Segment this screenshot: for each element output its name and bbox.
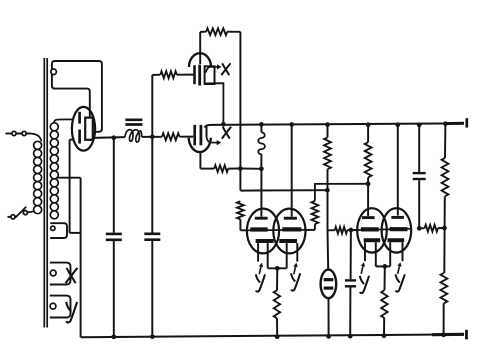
bias cell plates — [324, 278, 334, 281]
filament winding Y — [50, 296, 71, 318]
node V4 filament center — [382, 264, 387, 269]
resistor R9 — [312, 201, 319, 224]
wire R7 branch top — [327, 125, 329, 138]
wire R11 bottom — [276, 318, 278, 337]
resistor R1 grid — [160, 71, 177, 78]
transformer T1 secondary coil — [50, 123, 58, 131]
wire grid4 branch — [397, 125, 399, 216]
node B+ R13 — [443, 121, 448, 126]
node coil junction — [259, 166, 264, 171]
wire line2 coupling — [240, 189, 327, 191]
transformer T1 core — [43, 58, 45, 328]
tube V4 grid bar right — [391, 216, 404, 219]
resistor R10 grid left — [237, 201, 244, 219]
wire C1 branch — [113, 138, 115, 233]
node rail-R14 — [441, 332, 446, 337]
tube V4 cathode bar right — [388, 238, 405, 242]
wire V4 bias lead — [384, 266, 386, 290]
wire bus-240 — [239, 32, 241, 169]
wire V2b plate lead — [206, 125, 208, 137]
wire V2a top lead — [199, 32, 201, 64]
tube V4 cathode bar left — [364, 238, 381, 242]
tube V3 envelope left — [247, 209, 279, 254]
node C4 junction — [349, 228, 354, 233]
node cathode-bus — [238, 166, 243, 171]
wire C3 branch — [418, 125, 420, 172]
wire R9 bottom — [314, 224, 316, 230]
wire bias cell bottom — [328, 298, 330, 336]
node B+ R8 — [366, 122, 371, 127]
arrow Y4 — [398, 266, 400, 274]
wire coil branch top — [260, 124, 262, 132]
tube V3 grid bar right — [284, 217, 297, 220]
wire R13 branch — [444, 124, 446, 158]
label X1 — [222, 63, 229, 75]
arrow Y2 — [294, 267, 296, 275]
resistor R8 — [365, 142, 372, 177]
resistor R13 — [442, 158, 449, 196]
bias cell BC1 — [321, 270, 337, 299]
terminal ring input A2 — [22, 131, 26, 135]
tube V3 cathode bar left — [256, 239, 274, 243]
capacitor C1 — [106, 233, 122, 236]
node rail-BC1 — [326, 334, 331, 339]
tube V3 grid bar left — [255, 217, 268, 220]
filament winding L2 — [50, 223, 67, 238]
node rail-R12 — [382, 333, 387, 338]
arrow X2 — [207, 137, 212, 143]
inductor L4 choke — [258, 132, 265, 154]
capacitor C3 — [413, 172, 426, 174]
wire R14 bottom — [443, 303, 445, 335]
label Y1 — [256, 274, 260, 282]
label Y3 — [360, 276, 364, 284]
tube V2a plate — [205, 66, 215, 84]
node line1 junction — [366, 181, 371, 186]
IF transformer L3 coil — [125, 130, 142, 142]
node rail-C2 — [150, 334, 155, 339]
wire main grid line — [93, 136, 125, 139]
tube V3 plate bar right — [282, 227, 301, 231]
wire V3 filament leads — [257, 243, 259, 262]
wire C4 branch — [350, 230, 352, 279]
tube V3 envelope right — [273, 209, 305, 254]
wire C2 branch — [151, 137, 153, 233]
label X2 — [223, 127, 230, 139]
wire R13-R14 link — [443, 196, 446, 273]
wire R10 bottom — [239, 219, 241, 230]
tube V3 plate line — [249, 229, 304, 231]
wire R8 branch top — [367, 125, 369, 143]
wire R2 loop — [200, 31, 206, 33]
tube V3 plate bar left — [250, 227, 268, 231]
wire secondary tap — [57, 177, 80, 179]
terminal ring input B2 — [23, 211, 27, 215]
terminal ring input B1 — [11, 215, 15, 219]
resistor R14 — [441, 273, 448, 303]
tube V2a envelope — [189, 53, 211, 67]
node B+ C3 — [417, 122, 422, 127]
resistor R3 main line — [162, 133, 180, 140]
resistor R4 cathode — [214, 165, 228, 172]
resistor R11 bias — [274, 290, 280, 318]
node main-C2 — [150, 134, 155, 139]
node B+ L-coil — [259, 122, 264, 127]
node line2 end — [325, 188, 330, 193]
resistor R7 — [324, 137, 331, 169]
wire cathode to coil — [240, 168, 261, 170]
wire R8 branch bottom — [367, 177, 369, 216]
terminal ring input A1 — [12, 131, 16, 135]
switch blade S1 — [15, 207, 26, 218]
wire V3 filament link — [268, 267, 287, 269]
resistor R12 bias — [381, 290, 387, 318]
node B+ grid4 — [395, 122, 400, 127]
wire R6 link — [419, 227, 424, 229]
wire coil branch bottom — [260, 154, 262, 216]
label X winding — [67, 268, 76, 283]
wire antenna input — [6, 133, 13, 135]
label Y2 — [291, 273, 295, 281]
arrow X1 — [206, 67, 211, 73]
wire V2b cathode lead — [199, 153, 201, 169]
tube V2b envelope — [189, 138, 211, 152]
tube V2b grid — [193, 125, 196, 145]
wire R7 branch bottom — [327, 169, 329, 230]
capacitor C2 — [144, 233, 160, 236]
tube V4 plate bar right — [390, 227, 408, 231]
node rail-R11 — [275, 334, 280, 339]
terminal B+ end — [465, 118, 468, 127]
terminal ring winding Y — [50, 303, 56, 309]
terminal ring L2 — [51, 226, 55, 230]
wire V4 filament link — [376, 265, 390, 267]
node B+ R7 — [325, 122, 330, 127]
tickler winding L1 — [52, 61, 102, 132]
tube V4 grid bar left — [362, 216, 375, 219]
resistor R5 grid stop — [335, 227, 347, 234]
node B+ grid2 — [289, 122, 294, 127]
node rail-C4 — [348, 334, 353, 339]
node V3 filament center — [275, 266, 280, 271]
tube V4 envelope left — [357, 208, 387, 252]
arrow Y3 — [361, 266, 363, 274]
terminal ring L1 — [51, 69, 57, 75]
wire grid row — [152, 74, 160, 76]
wire ground rail — [81, 334, 462, 337]
label Y4 — [396, 274, 400, 282]
wire V3 bias lead — [276, 268, 278, 290]
wire secondary top to grid — [54, 119, 74, 123]
node plate-right — [417, 226, 422, 231]
tube V1 envelope — [72, 107, 95, 151]
wire R12 bottom — [383, 318, 385, 336]
resistor R2 feedback — [206, 28, 227, 35]
tube V1 plate — [85, 118, 93, 140]
filament winding X — [50, 263, 71, 285]
arrow Y1 — [259, 267, 261, 275]
tube V2b cathode bar — [199, 125, 202, 145]
tube V3 cathode bar right — [279, 239, 297, 243]
tube V2a grid — [193, 65, 196, 84]
tube V4 plate bar left — [361, 227, 379, 231]
wire grid-row riser — [151, 75, 153, 137]
tube V2a cathode bar — [198, 65, 201, 86]
wire B+ line — [205, 123, 462, 127]
transformer T1 primary coil — [34, 141, 42, 149]
wire V4 filament leads — [364, 242, 366, 261]
terminal ring winding X — [50, 270, 56, 276]
node main-C1 — [111, 135, 116, 140]
terminal rail end — [465, 330, 468, 340]
tube V4 envelope right — [382, 208, 412, 252]
wire R5 link — [328, 229, 335, 231]
wire bias cell top — [327, 230, 330, 269]
capacitor C4 — [345, 279, 356, 281]
node rail-C1 — [111, 334, 116, 339]
wire ground input — [8, 216, 11, 218]
tube V4 plate line — [358, 229, 411, 230]
IF transformer L3 core bars — [125, 118, 142, 121]
wire line1 coupling — [315, 184, 368, 201]
label Y winding — [66, 302, 71, 312]
node B+ step — [221, 122, 226, 127]
node R6 junction — [442, 226, 447, 231]
wire V1 cathode — [70, 139, 75, 141]
tube V1 grid — [78, 112, 81, 124]
wire V2a plate step — [204, 83, 223, 124]
wire grid2 branch — [291, 125, 293, 217]
resistor R6 — [425, 225, 438, 232]
